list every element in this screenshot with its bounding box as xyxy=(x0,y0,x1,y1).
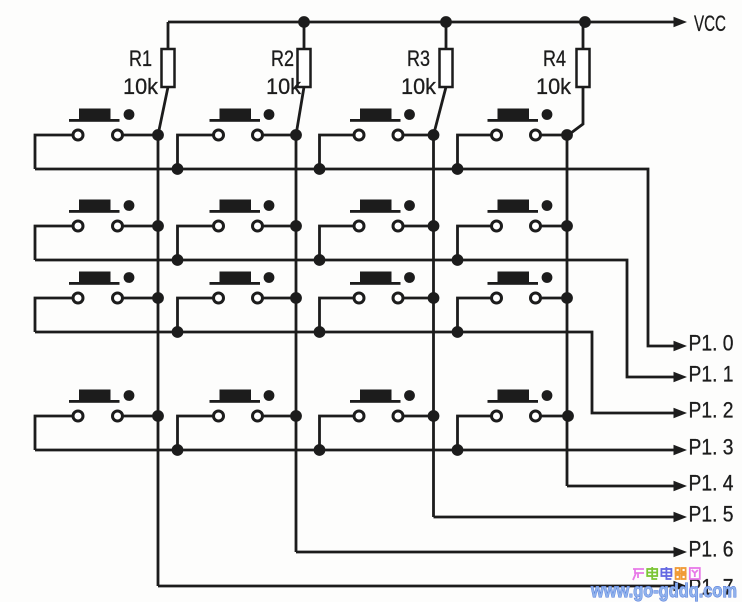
svg-text:P1. 5: P1. 5 xyxy=(689,502,734,527)
svg-text:VCC: VCC xyxy=(694,11,726,36)
svg-text:P1. 1: P1. 1 xyxy=(689,362,734,387)
svg-text:10k: 10k xyxy=(536,74,572,99)
svg-text:10k: 10k xyxy=(266,74,302,99)
svg-text:P1. 6: P1. 6 xyxy=(689,537,734,562)
svg-text:R1: R1 xyxy=(129,46,152,71)
svg-text:P1. 0: P1. 0 xyxy=(689,331,734,356)
svg-text:10k: 10k xyxy=(401,74,437,99)
svg-text:R2: R2 xyxy=(271,46,294,71)
svg-text:P1. 4: P1. 4 xyxy=(689,471,734,496)
svg-text:P1. 2: P1. 2 xyxy=(689,398,734,423)
svg-text:P1. 3: P1. 3 xyxy=(689,435,734,460)
svg-text:10k: 10k xyxy=(123,74,159,99)
svg-text:R3: R3 xyxy=(407,46,430,71)
svg-text:R4: R4 xyxy=(543,46,566,71)
svg-text:www.go-gddq.com: www.go-gddq.com xyxy=(590,581,737,602)
